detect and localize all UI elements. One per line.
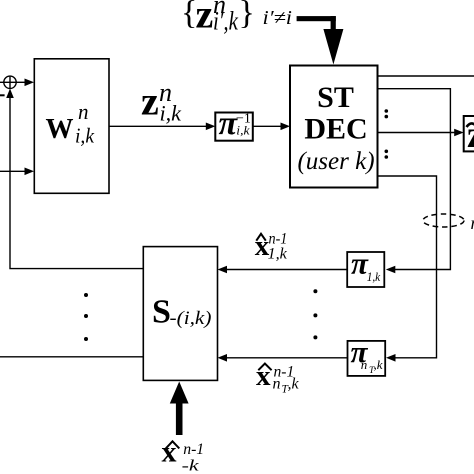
wire: input into adder from left edge: [0, 81, 4, 83]
label S_{-(i,k)}: [152, 293, 212, 330]
block W_{i,k}^n: [34, 59, 109, 194]
svg-text:S: S: [152, 293, 171, 330]
block pi^-1_{i,k} (deinterleaver): [215, 113, 253, 141]
dots (colon) between ST DEC outputs 3 and 4: [385, 150, 389, 159]
svg-text:-(i,k): -(i,k): [170, 309, 212, 329]
svg-text:n: n: [78, 99, 89, 124]
block pi_{1,k} (interleaver): [347, 252, 384, 287]
label pi_{nT,k}: [351, 334, 383, 376]
wire: pi_{nT,k} to S box: [218, 354, 348, 362]
adder (summing junction): [4, 76, 16, 88]
wire: adder output to W box: [16, 79, 34, 87]
svg-text:z: z: [196, 0, 214, 37]
label x-hat_{1,k}^{n-1}: [255, 230, 288, 263]
svg-text:1,k: 1,k: [268, 246, 288, 263]
svg-text:x: x: [162, 436, 177, 469]
wire: W box to interleaver-inverse box: [109, 123, 215, 131]
block pi_{nT,k} (interleaver): [348, 341, 386, 376]
svg-text:n: n: [273, 376, 281, 393]
svg-text:DEC: DEC: [304, 112, 367, 145]
svg-text:1,k: 1,k: [367, 269, 381, 284]
wire: ST DEC output 2 down to pi_{1,k}: [378, 89, 451, 274]
svg-text:(user k): (user k): [297, 148, 374, 175]
svg-text:i,k: i,k: [160, 101, 183, 126]
label z-tilde (clipped): [467, 114, 474, 156]
wire: pi_{1,k} to S box: [218, 266, 348, 274]
svg-text:-k: -k: [182, 458, 200, 474]
label ST DEC (user k): [297, 81, 374, 175]
label {z^n_{i',k}} i'&#8800;i: [181, 0, 292, 37]
thick arrow into ST DEC top: [297, 16, 344, 64]
label x-hat_{-k}^{n-1}: [162, 436, 205, 474]
svg-text:z: z: [467, 114, 474, 156]
svg-text:,k: ,k: [374, 357, 383, 372]
wire: ST DEC output 1 to right edge: [378, 75, 474, 77]
vertical dots between pi blocks: [313, 289, 317, 339]
svg-text:,k: ,k: [288, 376, 300, 393]
dashed ellipse grouping the feedback lines: [423, 214, 464, 227]
thick arrow into S box bottom: [170, 382, 189, 436]
svg-text:W: W: [46, 114, 74, 145]
wire: pi^-1 box to ST DEC box: [253, 123, 290, 131]
label pi^-1_{i,k}: [219, 105, 251, 142]
wire: S box second output to left edge: [0, 356, 143, 358]
minus sign at adder feedback input: [0, 94, 5, 96]
svg-text:i′,k: i′,k: [213, 7, 238, 36]
svg-text:z: z: [141, 79, 159, 124]
wire: ST DEC output 3 to z-tilde box: [378, 129, 464, 137]
svg-text:n-1: n-1: [183, 441, 204, 458]
label pi_{1,k}: [351, 245, 380, 284]
label W_{i,k}^n: [46, 99, 95, 148]
wire: ST DEC output 4 down to pi_{nT,k}: [378, 176, 437, 362]
svg-text:i′≠i: i′≠i: [263, 7, 293, 29]
svg-text:i,k: i,k: [236, 122, 249, 137]
label z_{i,k}^n: [141, 78, 182, 126]
svg-text:n: n: [471, 213, 474, 233]
svg-text:x: x: [256, 360, 271, 392]
block z-tilde (clipped at right edge): [464, 116, 474, 151]
svg-text:i,k: i,k: [75, 124, 95, 148]
svg-text:n: n: [361, 357, 368, 372]
svg-text:}: }: [239, 0, 255, 32]
block ST DEC (user k): [290, 66, 378, 188]
wire: second input into W box from left edge: [0, 168, 34, 176]
dots (colon) between ST DEC outputs 2 and 3: [385, 109, 389, 118]
wire: S box feedback up to adder: [6, 89, 143, 269]
block S_{-(i,k)}: [143, 247, 217, 381]
svg-text:ST: ST: [317, 81, 354, 114]
vertical dots left side: [84, 293, 88, 341]
label x-hat_{nT,k}^{n-1}: [256, 360, 300, 396]
